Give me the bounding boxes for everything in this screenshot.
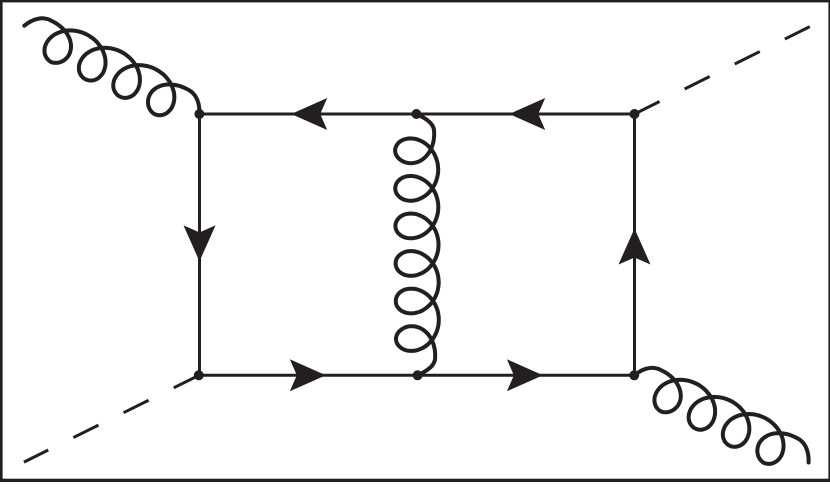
fermion line bottom edge xyxy=(200,374,635,377)
fermion line top edge xyxy=(200,113,635,116)
vertex top-right xyxy=(630,109,640,119)
outgoing gluon g3 (bottom-right coil) xyxy=(634,368,808,464)
incoming gluon g1 (top-left coil) xyxy=(24,18,199,115)
dashed scalar line bottom-left xyxy=(24,375,199,462)
arrow left edge (pointing down) xyxy=(184,225,216,261)
fermion line left edge xyxy=(198,114,201,375)
arrow bottom-right (pointing right) xyxy=(507,359,543,391)
arrow bottom-left (pointing right) xyxy=(290,359,326,391)
vertex top-left xyxy=(194,109,204,119)
fermion line right edge xyxy=(633,114,636,375)
vertex bottom-left xyxy=(194,370,204,380)
gluon propagator g2 (vertical coil) xyxy=(395,114,439,375)
dashed scalar line top-right xyxy=(635,27,810,114)
arrow top-right (pointing left) xyxy=(509,98,545,130)
vertex bottom-right xyxy=(629,370,639,380)
vertex bottom-middle xyxy=(413,370,423,380)
arrow right edge (pointing up) xyxy=(619,229,651,265)
vertex top-middle xyxy=(411,109,421,119)
arrow top-left (pointing left) xyxy=(291,98,327,130)
